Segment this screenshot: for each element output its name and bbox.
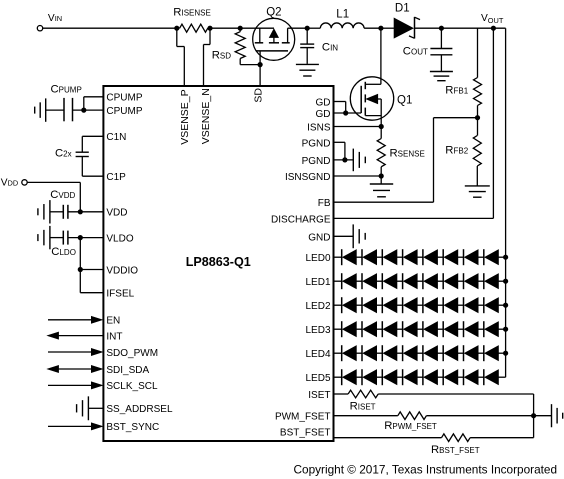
wire VOUT to RFB1	[477, 28, 479, 77]
ground at CIN	[296, 63, 319, 65]
node ISNS / RSENSE top	[379, 124, 384, 129]
svg-text:LP8863-Q1: LP8863-Q1	[186, 255, 251, 269]
capacitor CVDD	[62, 205, 64, 219]
node VOUT / DISCHARGE	[491, 26, 496, 31]
transistor Q1 (NMOS)	[350, 77, 393, 127]
wire C2x to pin C1P	[81, 157, 83, 177]
transistor Q2 (PMOS high-side switch)	[253, 18, 295, 64]
terminal VIN	[37, 26, 42, 31]
node COUT	[439, 26, 444, 31]
capacitor COUT	[440, 28, 442, 48]
wire pin GND to ground	[334, 235, 354, 237]
input arrow SDO_PWM	[48, 351, 92, 353]
svg-text:PGND: PGND	[302, 156, 331, 167]
wire pin SS_ADDRSEL	[88, 407, 103, 409]
svg-text:VSENSE_P: VSENSE_P	[179, 89, 191, 144]
svg-text:ISNSGND: ISNSGND	[285, 172, 331, 183]
wire RPWM_FSET to common node	[426, 415, 533, 417]
node PGND junction	[342, 157, 347, 162]
node FB divider	[475, 115, 480, 120]
output arrow INT	[48, 332, 58, 339]
ground at COUT	[430, 71, 453, 73]
wire pin DISCHARGE to VOUT	[334, 217, 494, 219]
input arrow EN	[48, 319, 92, 321]
ground at GND pin (rotated)	[352, 224, 354, 248]
wire pin VDD	[68, 211, 104, 213]
capacitor CIN	[306, 28, 308, 43]
wire RSD bottom to SD node	[240, 64, 260, 66]
svg-text:LED3: LED3	[305, 325, 330, 336]
wire CPUMP pin2	[73, 109, 104, 111]
wire pin BST_FSET to RBST_FSET	[334, 437, 442, 439]
node LED4 rail	[503, 351, 508, 356]
ground at CVDD (rotated)	[49, 200, 51, 223]
svg-text:DISCHARGE: DISCHARGE	[271, 214, 331, 225]
LED string row 0 (8 LEDs, anode right)	[334, 249, 506, 265]
ground at PGND (rotated)	[352, 149, 354, 172]
svg-text:FB: FB	[318, 198, 331, 209]
wire pin VLDO	[68, 237, 104, 239]
node LED3 rail	[503, 327, 508, 332]
capacitor C2x	[76, 151, 89, 153]
svg-text:VIN: VIN	[48, 13, 62, 24]
wire pin PWM_FSET to RPWM_FSET	[334, 415, 398, 417]
bidirectional arrow SDI_SDA	[48, 366, 58, 373]
node switch (L1/D1/Q1 drain)	[378, 26, 383, 31]
svg-text:CPUMP: CPUMP	[51, 83, 82, 95]
node SD junction	[258, 62, 263, 67]
resistor RPWM_FSET	[398, 412, 427, 420]
wire pin FB to divider node	[334, 201, 434, 203]
svg-text:LED2: LED2	[305, 301, 330, 312]
svg-text:BST_FSET: BST_FSET	[280, 428, 331, 439]
wire pin ISNS to Q1 source	[334, 126, 382, 128]
svg-text:PWM_FSET: PWM_FSET	[275, 412, 331, 423]
svg-text:EN: EN	[106, 316, 120, 327]
wire CPUMP pin1	[84, 96, 104, 98]
svg-text:CIN: CIN	[322, 42, 338, 54]
node CPUMP junction	[81, 108, 86, 113]
resistor RSENSE	[380, 127, 382, 139]
svg-text:LED4: LED4	[305, 349, 330, 360]
wire ground to CPUMP	[46, 109, 64, 111]
input arrow SCLK_SCL	[48, 384, 92, 386]
wire D1 cathode to COUT node	[415, 27, 442, 29]
svg-text:RFB2: RFB2	[445, 145, 468, 157]
svg-text:SCLK_SCL: SCLK_SCL	[106, 381, 158, 392]
LED string row 3 (8 LEDs, anode right)	[334, 321, 506, 337]
wire VIN to RISENSE	[43, 27, 177, 29]
resistor RISENSE	[177, 27, 180, 29]
capacitor CLDO	[62, 231, 64, 245]
op-amp U1 LP8863-Q1 IC body	[103, 86, 333, 441]
svg-text:SDO_PWM: SDO_PWM	[106, 348, 158, 359]
wire VSENSE_N from RISENSE right	[209, 28, 211, 44]
LED string row 4 (8 LEDs, anode right)	[334, 345, 506, 361]
svg-text:IFSEL: IFSEL	[106, 289, 134, 300]
wire pin IFSEL	[80, 292, 103, 294]
wire pin GD1	[334, 101, 346, 103]
svg-text:RPWM_FSET: RPWM_FSET	[384, 420, 437, 432]
svg-text:GD: GD	[316, 98, 331, 109]
svg-text:CLDO: CLDO	[51, 246, 76, 258]
node RSENSE bottom	[379, 173, 384, 178]
resistor RFB2	[477, 118, 479, 136]
node FSET common	[531, 413, 536, 418]
ground at SS_ADDRSEL (rotated)	[87, 396, 89, 420]
wire pin C1N to C2x	[82, 135, 103, 137]
svg-text:ISET: ISET	[308, 390, 330, 401]
wire COUT node to VOUT	[441, 27, 505, 29]
wire RISET to common node	[378, 393, 533, 395]
LED string row 1 (8 LEDs, anode right)	[334, 273, 506, 289]
svg-text:SDI_SDA: SDI_SDA	[106, 365, 149, 376]
svg-text:RISET: RISET	[350, 400, 376, 412]
svg-text:LED5: LED5	[305, 373, 330, 384]
wire ground to CVDD	[50, 211, 63, 213]
node LED2 rail	[503, 303, 508, 308]
svg-text:Q1: Q1	[397, 95, 412, 107]
svg-text:INT: INT	[106, 331, 122, 342]
svg-text:LED0: LED0	[305, 253, 330, 264]
wire VDDIO to IFSEL	[79, 270, 81, 293]
wire CIN node to L1	[307, 27, 320, 29]
inductor L1	[320, 23, 364, 28]
svg-text:LED1: LED1	[305, 277, 330, 288]
capacitor CPUMP	[63, 98, 65, 121]
svg-text:RBST_FSET: RBST_FSET	[431, 444, 480, 456]
svg-text:VDD: VDD	[106, 208, 127, 219]
svg-text:GND: GND	[308, 232, 330, 243]
resistor RFB1	[474, 78, 482, 106]
svg-text:RSD: RSD	[212, 50, 232, 62]
svg-text:BST_SYNC: BST_SYNC	[106, 422, 159, 433]
svg-text:C1N: C1N	[106, 132, 126, 143]
svg-text:Copyright © 2017, Texas Instru: Copyright © 2017, Texas Instruments Inco…	[294, 462, 558, 476]
svg-text:ISNS: ISNS	[307, 123, 331, 134]
node VDDIO junction	[78, 267, 83, 272]
wire Q2 drain to CIN node	[288, 27, 308, 29]
node RSD top	[238, 26, 243, 31]
node VDD junction	[78, 209, 83, 214]
resistor RISET	[348, 390, 378, 398]
wire VDD terminal to VDD pin	[27, 181, 80, 183]
terminal VDD	[22, 180, 27, 185]
wire switch node to D1 anode	[381, 27, 394, 29]
svg-text:PGND: PGND	[302, 138, 331, 149]
svg-text:RISENSE: RISENSE	[173, 6, 211, 18]
wire ground to CLDO	[50, 237, 63, 239]
svg-text:D1: D1	[395, 2, 410, 14]
wire pin PGND2 to ground	[334, 159, 354, 161]
wire L1 to switch node	[364, 27, 381, 29]
svg-text:CVDD: CVDD	[50, 189, 75, 201]
svg-text:C2x: C2x	[55, 148, 72, 160]
wire FSET node to ground	[534, 415, 552, 417]
LED string row 5 (8 LEDs, anode right)	[334, 369, 506, 385]
node LED1 rail	[503, 279, 508, 284]
LED string row 2 (8 LEDs, anode right)	[334, 297, 506, 313]
svg-text:Q2: Q2	[266, 6, 281, 18]
svg-text:RFB1: RFB1	[445, 85, 468, 97]
svg-text:GD: GD	[316, 109, 331, 120]
ground at CLDO (rotated)	[49, 226, 51, 249]
wire pin GD2 to Q1 gate	[334, 112, 362, 114]
wire switch node down to Q1 drain	[380, 28, 382, 84]
ground at RSENSE	[380, 176, 382, 184]
node LED0 rail	[503, 255, 508, 260]
node CIN	[305, 26, 310, 31]
resistor RBST_FSET	[442, 434, 471, 442]
wire VOUT rail down right side	[505, 28, 507, 377]
svg-text:COUT: COUT	[403, 46, 428, 58]
svg-text:CPUMP: CPUMP	[106, 93, 142, 104]
diode D1 (Schottky)	[394, 18, 413, 38]
svg-text:VDD: VDD	[1, 177, 18, 188]
svg-text:VDDIO: VDDIO	[106, 265, 138, 276]
wire VSENSE_P from RISENSE left	[176, 28, 178, 46]
node VLDO junction	[78, 235, 83, 240]
ground at FSET (rotated)	[551, 404, 553, 427]
input arrow BST_SYNC	[48, 425, 92, 427]
svg-text:RSENSE: RSENSE	[390, 147, 425, 159]
wire SD node to pin SD	[259, 65, 261, 86]
svg-text:VLDO: VLDO	[106, 233, 133, 244]
svg-text:VSENSE_N: VSENSE_N	[200, 88, 212, 144]
wire RBST_FSET to common node	[470, 437, 533, 439]
svg-text:C1P: C1P	[106, 172, 126, 183]
wire pin PGND1	[334, 141, 345, 143]
svg-text:CPUMP: CPUMP	[106, 106, 142, 117]
ground at RFB2	[465, 185, 490, 187]
ground at CPUMP (rotated)	[45, 98, 47, 121]
node VIN rail / RISENSE left	[174, 26, 179, 31]
svg-text:L1: L1	[336, 8, 349, 20]
wire VLDO to VDDIO	[79, 238, 81, 270]
wire pin ISET to RISET	[334, 393, 349, 395]
svg-text:SD: SD	[253, 88, 265, 103]
svg-text:SS_ADDRSEL: SS_ADDRSEL	[106, 404, 173, 415]
wire pin ISNSGND to RSENSE bottom	[334, 175, 382, 177]
node RISENSE right	[207, 26, 212, 31]
wire RISENSE to Q2 source	[210, 27, 274, 29]
resistor RSD	[235, 32, 245, 59]
wire pin VDDIO	[80, 269, 103, 271]
node GD junction	[343, 110, 348, 115]
